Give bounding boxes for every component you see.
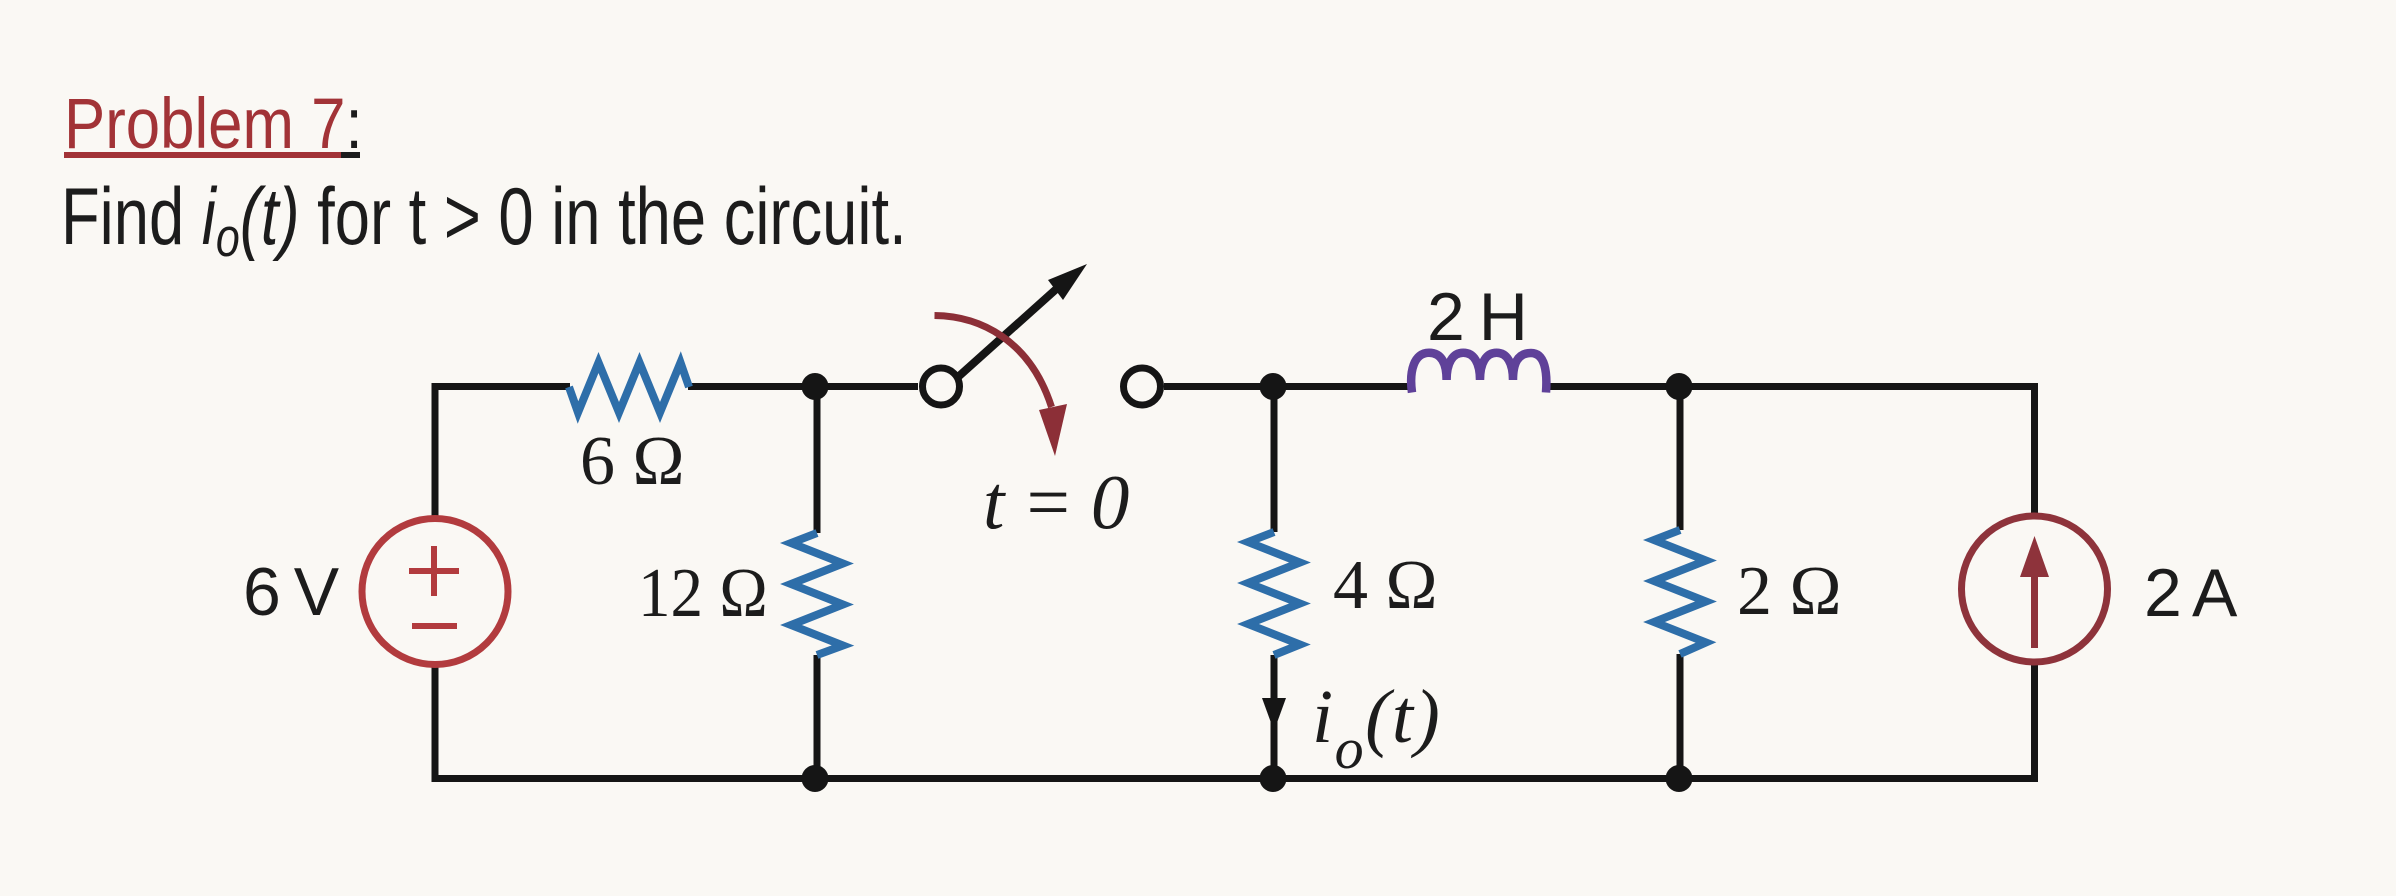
svg-text:6 V: 6 V bbox=[243, 554, 340, 630]
svg-text:12 Ω: 12 Ω bbox=[638, 554, 768, 632]
svg-text:2 A: 2 A bbox=[2144, 555, 2238, 631]
svg-text:t = 0: t = 0 bbox=[983, 459, 1129, 545]
svg-text:4 Ω: 4 Ω bbox=[1333, 547, 1438, 624]
svg-text:2 Ω: 2 Ω bbox=[1737, 553, 1842, 630]
svg-text:6 Ω: 6 Ω bbox=[580, 423, 685, 500]
svg-text:Find io(t) for t > 0 in the ci: Find io(t) for t > 0 in the circuit. bbox=[61, 172, 907, 269]
svg-text:2 H: 2 H bbox=[1427, 279, 1525, 355]
